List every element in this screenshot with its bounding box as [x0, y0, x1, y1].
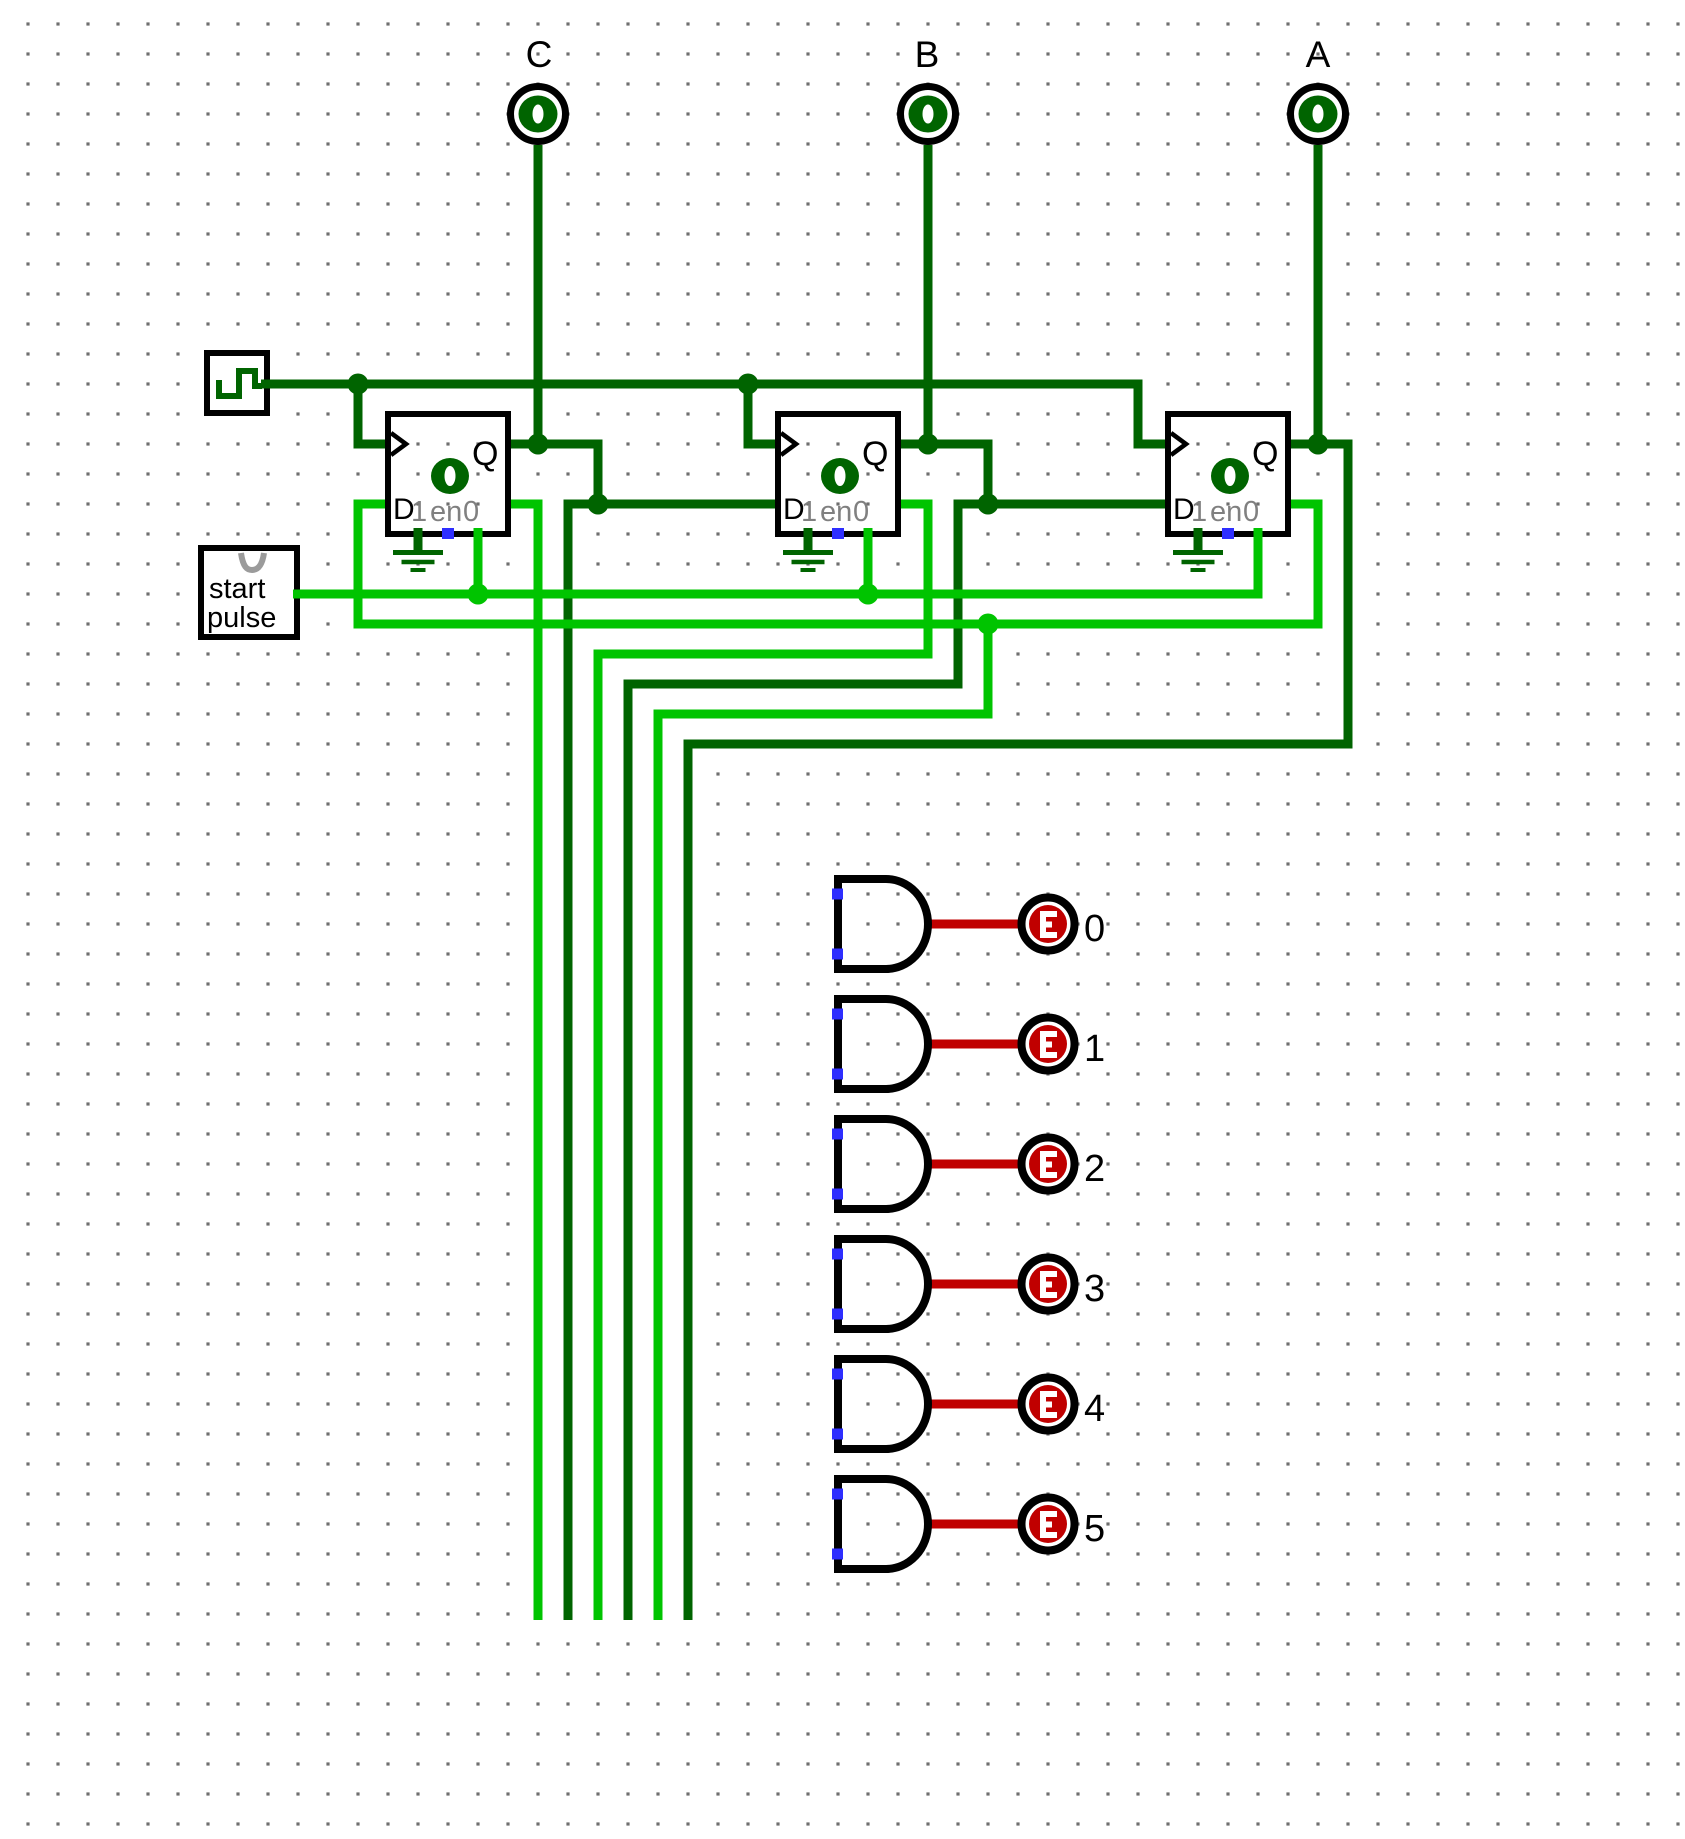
node Q1 fanout	[588, 494, 609, 515]
wire clock bus	[263, 384, 1166, 444]
svg-text:0: 0	[1084, 908, 1105, 950]
output pin E5	[1022, 1498, 1106, 1551]
FF2 state 0	[821, 458, 859, 494]
wire start pulse line	[298, 534, 1258, 594]
FF3 en stub	[1254, 528, 1263, 540]
svg-text:start: start	[209, 573, 265, 605]
ground FF3	[1173, 528, 1223, 570]
wire gate1 output	[928, 1040, 1020, 1049]
node en2 tap	[858, 584, 879, 605]
node Q2 fanout	[978, 494, 999, 515]
svg-text:1: 1	[1191, 496, 1207, 528]
probe pin A	[1291, 34, 1346, 142]
and gate G3	[832, 1239, 928, 1329]
wire gate2 output	[928, 1160, 1020, 1169]
wire clock branch to FF1	[358, 384, 386, 444]
node en1 tap	[468, 584, 489, 605]
wire Q-bar3 feedback to D1	[358, 504, 1318, 624]
svg-text:C: C	[526, 34, 553, 75]
wire Q-bar2 decoder	[598, 504, 928, 1620]
svg-text:1: 1	[1084, 1028, 1105, 1070]
FF3 clock triangle	[1171, 433, 1186, 455]
svg-text:B: B	[915, 34, 940, 75]
FF1 en stub	[474, 528, 483, 594]
wire gate5 output	[928, 1520, 1020, 1529]
svg-text:en: en	[430, 496, 462, 528]
wire Q-bar1 decoder	[508, 504, 538, 1620]
probe pin B	[901, 34, 956, 142]
and gate G0	[832, 879, 928, 969]
wire probe C drop	[534, 145, 543, 444]
probe pin C	[511, 34, 566, 142]
svg-text:A: A	[1306, 34, 1331, 75]
output pin E4	[1022, 1378, 1106, 1431]
node C tap on Q1	[528, 434, 549, 455]
svg-text:Q: Q	[472, 435, 498, 473]
and gate G4	[832, 1359, 928, 1449]
svg-text:0: 0	[463, 496, 479, 528]
output pin E2	[1022, 1138, 1106, 1191]
svg-text:0: 0	[853, 496, 869, 528]
ground FF2	[783, 528, 833, 570]
FF3 state 0	[1211, 458, 1249, 494]
wire probe B drop	[924, 145, 933, 444]
wire gate3 output	[928, 1280, 1020, 1289]
svg-text:5: 5	[1084, 1508, 1105, 1550]
FF1 state 0	[431, 458, 469, 494]
wire probe A drop	[1314, 145, 1323, 444]
wire Q3 decoder path	[688, 444, 1348, 1620]
svg-text:2: 2	[1084, 1148, 1105, 1190]
ground FF1	[393, 528, 443, 570]
wire Q1 to D2 and decoder vertical	[568, 504, 778, 1620]
flip-flop FF1 box	[388, 414, 508, 534]
svg-text:3: 3	[1084, 1268, 1105, 1310]
and gate G2	[832, 1119, 928, 1209]
wire Q1 to corner	[508, 444, 598, 504]
wire clock branch to FF2	[748, 384, 776, 444]
FF3 floating pin	[1222, 528, 1234, 539]
svg-text:1: 1	[411, 496, 427, 528]
wire Q2 to D3 and decoder path	[628, 504, 1168, 1620]
FF2 en stub	[864, 528, 873, 594]
and gate G1	[832, 999, 928, 1089]
flip-flop FF2 box	[778, 414, 898, 534]
FF1 floating pin	[442, 528, 454, 539]
output pin E3	[1022, 1258, 1106, 1311]
output pin E0	[1022, 898, 1106, 951]
and gate G5	[832, 1479, 928, 1569]
node clock-FF1 branch	[348, 374, 369, 395]
FF2 clock triangle	[781, 433, 796, 455]
svg-text:pulse: pulse	[207, 602, 276, 634]
FF1 clock triangle	[391, 433, 406, 455]
wire gate0 output	[928, 920, 1020, 929]
node clock-FF2 branch	[738, 374, 759, 395]
svg-text:en: en	[1210, 496, 1242, 528]
svg-text:en: en	[820, 496, 852, 528]
svg-text:1: 1	[801, 496, 817, 528]
wire Q-bar3 decoder branch	[658, 624, 988, 1620]
input start pulse box	[201, 548, 305, 637]
clock source box	[207, 353, 274, 413]
wire gate4 output	[928, 1400, 1020, 1409]
wire Q2 to corner	[898, 444, 988, 504]
svg-text:Q: Q	[1252, 435, 1278, 473]
svg-text:0: 0	[1243, 496, 1259, 528]
node A tap on Q3	[1308, 434, 1329, 455]
svg-text:4: 4	[1084, 1388, 1105, 1430]
output pin E1	[1022, 1018, 1106, 1071]
svg-text:Q: Q	[862, 435, 888, 473]
FF2 floating pin	[832, 528, 844, 539]
node B tap on Q2	[918, 434, 939, 455]
node feedback branch	[978, 614, 999, 635]
flip-flop FF3 box	[1168, 414, 1288, 534]
